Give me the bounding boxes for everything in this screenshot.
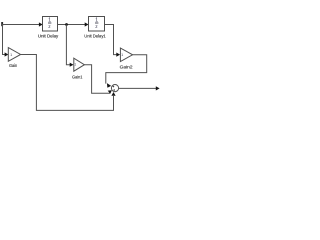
arrowhead into Unit Delay1 [85,22,89,26]
gain G2 triangle [120,48,132,62]
gain G1 triangle [74,58,85,71]
node input tick [1,22,3,26]
wire junction down to Gain1 [66,25,70,65]
arrowhead output [156,86,160,90]
svg-text:1: 1 [74,62,76,66]
unit-delay U1 block [43,17,58,32]
wire left branch down to Gain [3,25,5,55]
svg-text:1: 1 [10,53,12,57]
wire Gain2 out wrap-around to Sum left [106,55,147,84]
wire Gain1 out down to Sum lower-left [84,65,109,94]
arrowhead into Sum left [107,83,111,88]
arrowhead up into Sum bottom [111,92,115,96]
svg-text:Gain1: Gain1 [72,74,83,79]
arrowhead into Gain1 [70,63,74,67]
svg-text:Gain2: Gain2 [120,64,133,69]
node junction dot [65,23,68,26]
unit-delay U2 block [89,17,105,32]
wire Unit Delay1 out down to Gain2 [105,25,117,55]
gain G0 triangle [8,48,20,62]
arrowhead into Gain2 [116,53,120,57]
svg-text:Unit Delay1: Unit Delay1 [84,34,106,39]
wire Gain out down and along bottom [21,55,114,111]
svg-text:1: 1 [121,53,123,57]
svg-text:Gain: Gain [9,63,18,68]
sum S1 circle [111,85,118,92]
wire Unit Delay to Unit Delay1 [58,24,86,26]
arrowhead up into Sum lower-left [108,90,112,94]
wire Sum output [119,87,157,89]
arrowhead into Unit Delay [39,22,43,26]
svg-text:Unit Delay: Unit Delay [38,34,59,39]
background [0,0,160,120]
wire main top to Unit Delay [2,24,39,26]
arrowhead into Gain [5,52,9,56]
